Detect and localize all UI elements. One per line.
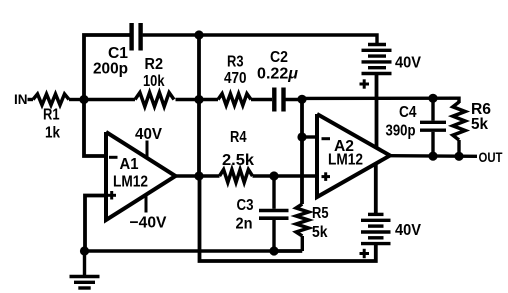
node IN label <box>14 91 28 107</box>
svg-text:R1: R1 <box>43 107 60 124</box>
label A1 supply 40V <box>135 126 162 143</box>
resistor R1 <box>33 94 84 105</box>
svg-text:10k: 10k <box>143 73 165 90</box>
wire node G to A2 inverting input <box>302 135 317 138</box>
node G (A2 inverting tap) <box>297 132 306 141</box>
wire node C to feedback top rail <box>302 96 459 100</box>
svg-text:−40V: −40V <box>130 215 167 232</box>
wire feedback vertical x199 <box>197 35 201 176</box>
label R6 value 5k <box>471 116 488 133</box>
label C3 <box>237 197 254 214</box>
node H (C4 top) <box>428 94 437 103</box>
wire IN lead <box>28 98 34 101</box>
label C2 value 0.22u <box>257 66 298 83</box>
ground <box>70 251 100 288</box>
label R3 <box>227 54 244 71</box>
node D (A1 output) <box>194 171 203 180</box>
label R1 <box>43 107 60 124</box>
wire C2 to node C <box>286 98 303 101</box>
svg-text:R3: R3 <box>227 54 244 71</box>
svg-text:0.22μ: 0.22μ <box>257 66 298 83</box>
svg-text:470: 470 <box>224 70 247 87</box>
A1 inverting pin mark <box>109 156 118 159</box>
resistor R6 <box>453 98 465 156</box>
node E (R4/C3/A2+ junction) <box>269 171 278 180</box>
wire A2 output <box>390 154 477 158</box>
svg-text:C4: C4 <box>399 104 417 121</box>
wire node A down to A1 inverting input <box>84 100 106 157</box>
capacitor C1 <box>132 23 141 51</box>
svg-text:C2: C2 <box>270 49 288 66</box>
svg-text:2.5k: 2.5k <box>222 152 254 169</box>
svg-text:C3: C3 <box>237 197 254 214</box>
wire node E to A2 non-inverting input <box>274 174 317 177</box>
resistor R4 <box>199 170 274 183</box>
B1 plus mark <box>360 79 370 88</box>
svg-text:IN: IN <box>14 91 28 107</box>
A1 positive supply stub <box>146 141 149 159</box>
label R6 <box>471 101 491 118</box>
wire ground rail <box>85 249 303 252</box>
label R4 <box>230 129 247 146</box>
op-amp A2 <box>317 114 390 197</box>
label R4 value 2.5k <box>222 152 254 169</box>
node B (R2/R3 junction) <box>194 95 203 104</box>
battery B1 40V <box>362 45 392 74</box>
svg-text:R5: R5 <box>312 205 329 222</box>
label C1 value 200p <box>93 61 128 78</box>
svg-text:OUT: OUT <box>479 149 503 165</box>
node ground junction <box>80 246 89 255</box>
svg-text:2n: 2n <box>236 216 253 233</box>
capacitor C2 <box>274 88 283 112</box>
label C3 value 2n <box>236 216 253 233</box>
A1 negative supply stub <box>145 194 148 213</box>
B2 plus mark <box>360 249 370 258</box>
svg-text:C1: C1 <box>108 45 128 62</box>
label C1 <box>108 45 128 62</box>
resistor R3 <box>199 94 272 106</box>
A2 non-inverting pin mark <box>322 172 331 181</box>
node A (summing junction) <box>79 95 88 104</box>
wire A1 output <box>176 174 200 177</box>
label B1 40V <box>395 55 421 72</box>
svg-text:200p: 200p <box>93 61 128 78</box>
svg-text:5k: 5k <box>312 224 328 241</box>
wire A2 V- to battery B2 <box>374 163 378 214</box>
label C4 value 390p <box>386 123 416 140</box>
node C (C2 right) <box>297 95 306 104</box>
node I (C4 bottom) <box>428 152 437 161</box>
svg-text:40V: 40V <box>395 222 421 239</box>
svg-text:390p: 390p <box>386 123 416 140</box>
op-amp A1 <box>106 132 176 220</box>
wire A1 non-inverting to ground <box>85 196 106 252</box>
svg-text:R2: R2 <box>145 56 164 73</box>
node F (C3 bottom) <box>269 246 278 255</box>
A2 inverting pin mark <box>322 137 331 140</box>
svg-text:1k: 1k <box>45 125 60 142</box>
wire node C down (feedback tap) <box>300 100 304 205</box>
svg-text:40V: 40V <box>135 126 162 143</box>
wire C1 to node B top <box>143 33 199 36</box>
resistor R2 <box>84 93 199 107</box>
label R2 value 10k <box>143 73 165 90</box>
label R5 <box>312 205 329 222</box>
wire node A up to C1 <box>84 35 130 100</box>
svg-text:LM12: LM12 <box>328 152 363 169</box>
resistor R5 <box>274 204 309 251</box>
svg-text:40V: 40V <box>395 55 421 72</box>
label R1 value 1k <box>45 125 60 142</box>
wire battery B1 to A2 V+ <box>375 74 379 149</box>
label C4 <box>399 104 417 121</box>
wire A1 output down to bootstrap rail <box>200 176 376 261</box>
capacitor C3 <box>259 176 289 251</box>
node B top (C1/battery tee) <box>194 30 203 39</box>
label R2 <box>145 56 164 73</box>
label R3 value 470 <box>224 70 247 87</box>
A1 non-inverting pin mark <box>108 191 117 200</box>
label R5 value 5k <box>312 224 328 241</box>
label C2 <box>270 49 288 66</box>
battery B2 40V <box>361 214 391 243</box>
svg-text:LM12: LM12 <box>113 174 148 191</box>
node OUT label <box>479 149 503 165</box>
svg-text:5k: 5k <box>471 116 488 133</box>
label B2 40V <box>395 222 421 239</box>
capacitor C4 <box>420 98 446 156</box>
wire top rail to battery <box>199 35 377 45</box>
label A1 supply -40V <box>130 215 167 232</box>
svg-text:A1: A1 <box>120 156 139 173</box>
svg-text:R4: R4 <box>230 129 247 146</box>
node J (output junction) <box>454 152 463 161</box>
